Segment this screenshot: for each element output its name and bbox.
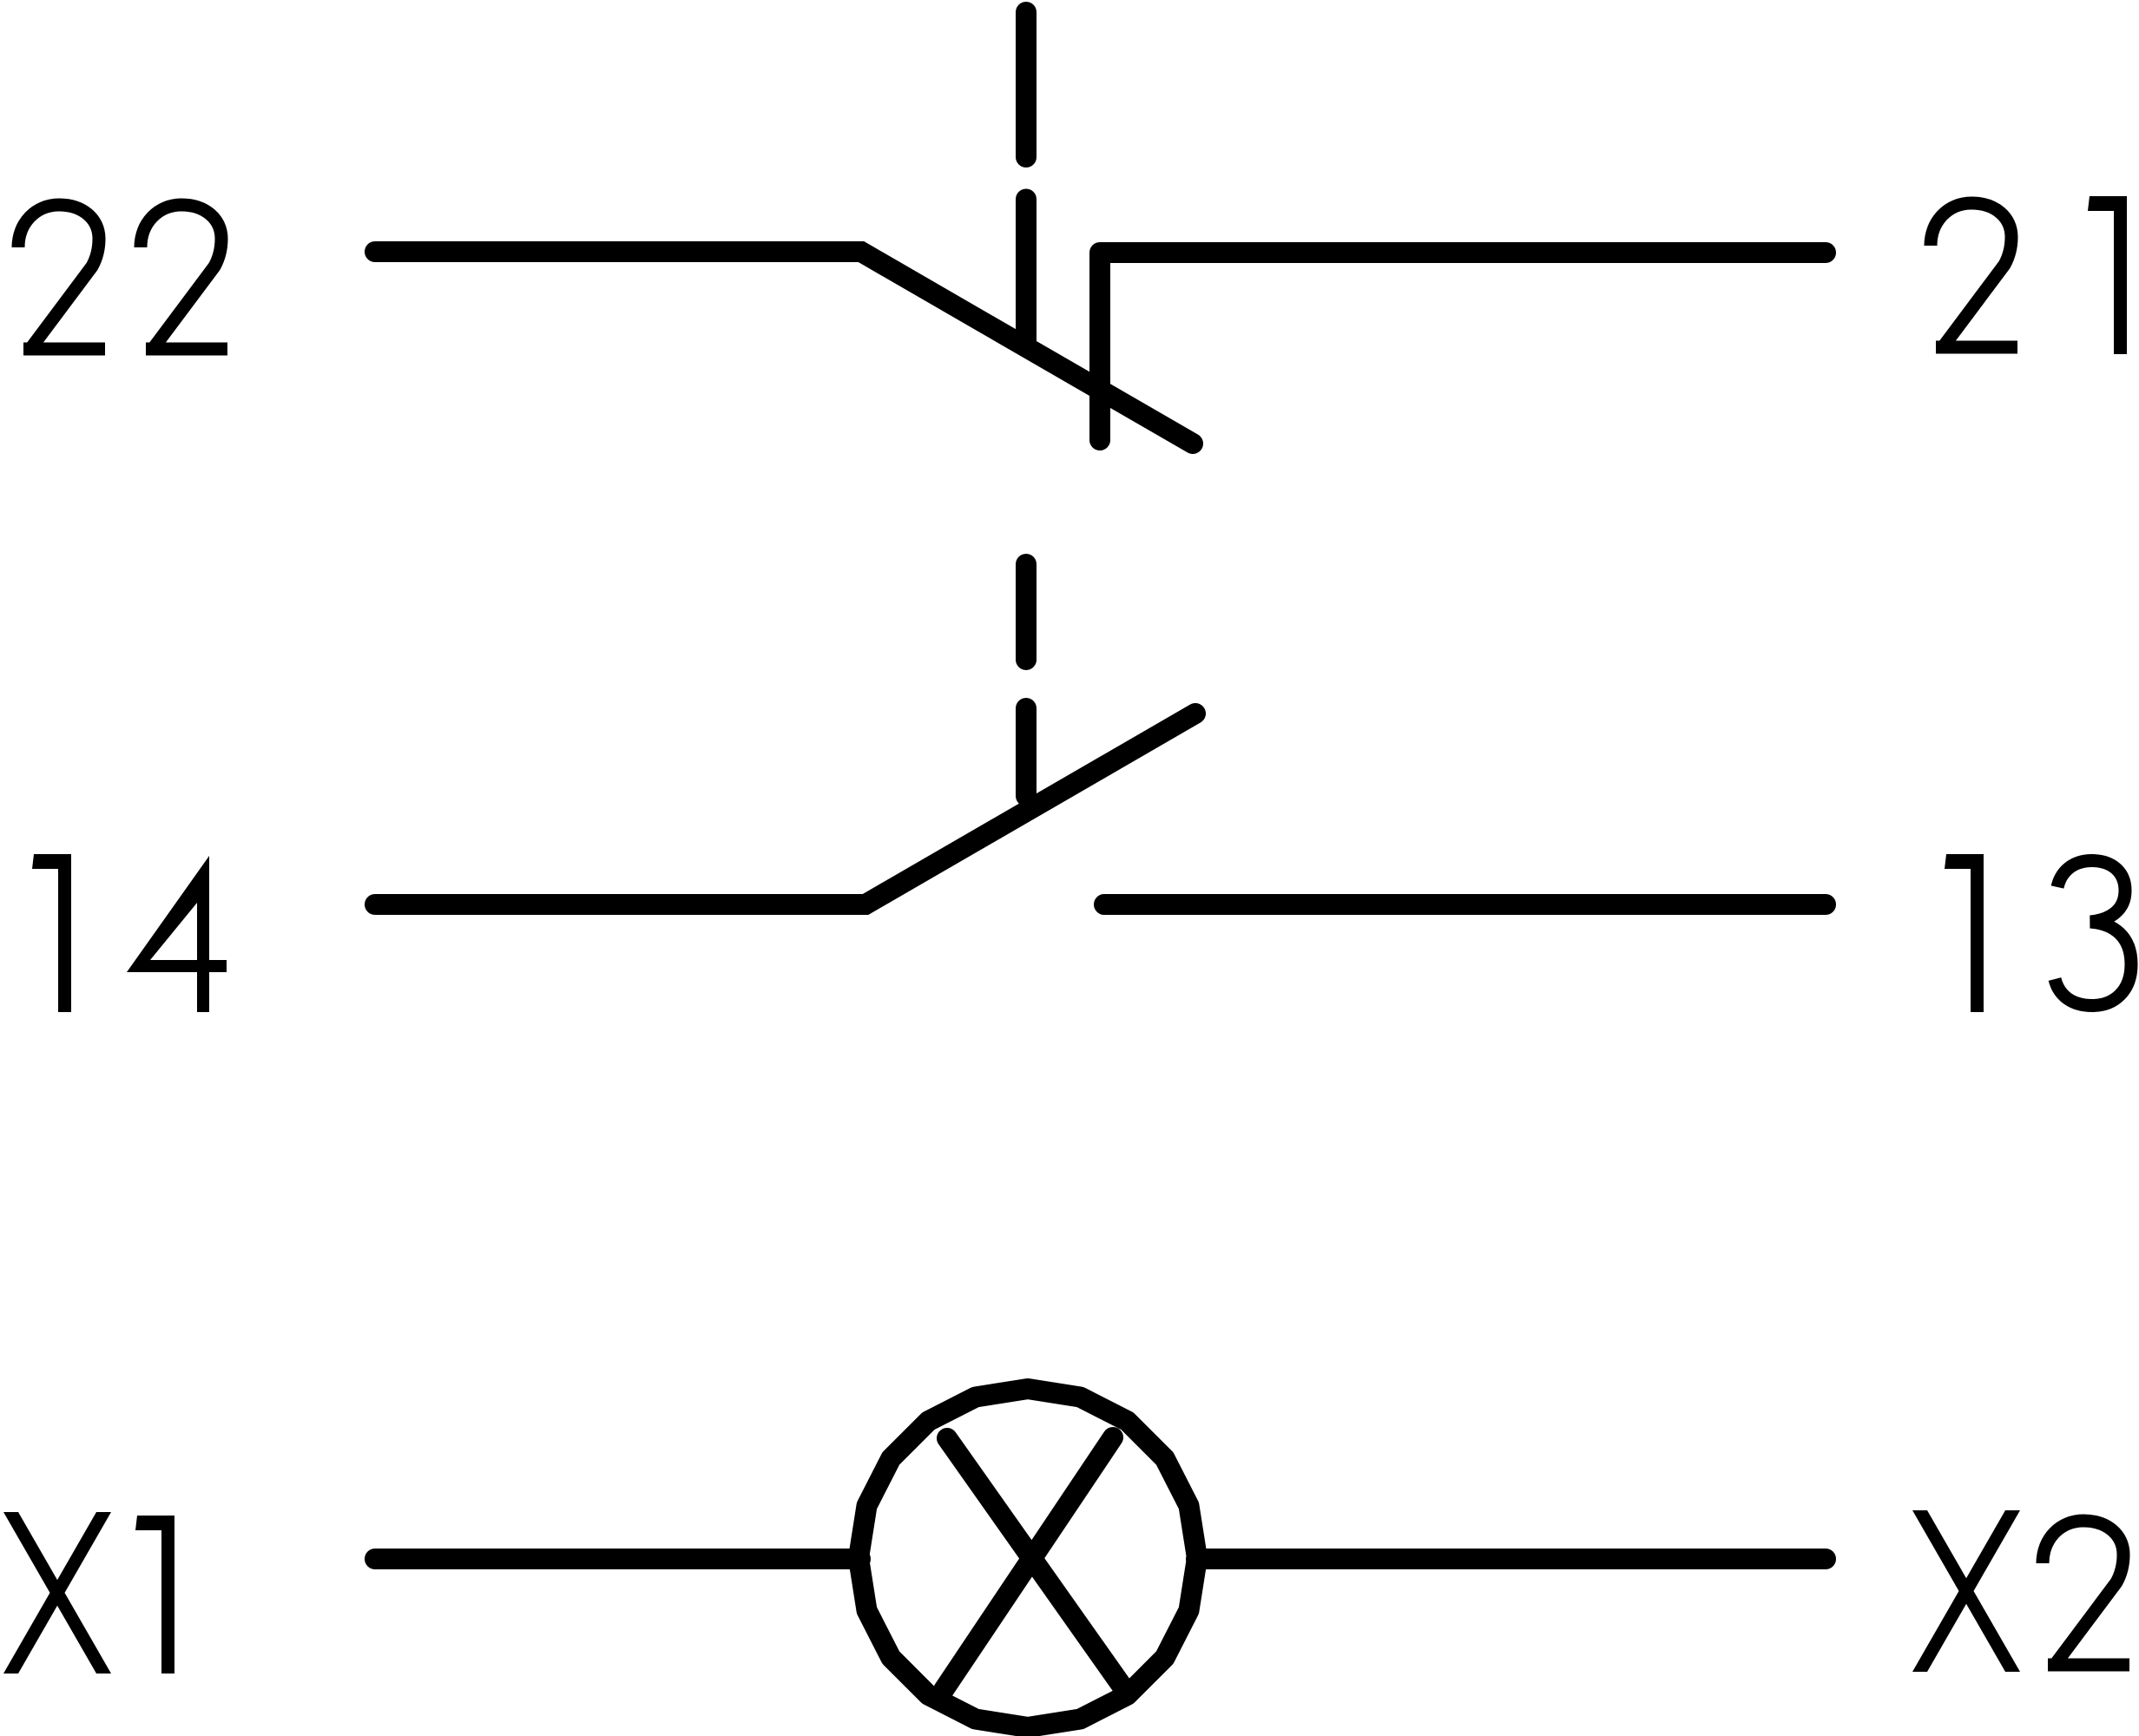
lamp circle [859, 1389, 1197, 1727]
label terminal X1 [3, 1512, 174, 1674]
NO contact actuator dash upper [1016, 564, 1037, 660]
wire terminal X1 [375, 1549, 860, 1569]
label terminal 21 [1931, 196, 2127, 354]
NC fixed contact bar and wire terminal 21 [1100, 253, 1826, 440]
lamp cross stroke 2 [944, 1437, 1113, 1690]
label terminal 14 [32, 854, 227, 1012]
wire terminal 14 and NO moving contact [375, 713, 1195, 904]
lamp cross stroke 1 [947, 1438, 1124, 1689]
wire terminal X2 [1196, 1549, 1826, 1569]
NO contact actuator dash lower [1016, 708, 1037, 796]
label terminal X2 [1912, 1510, 2129, 1672]
NC contact actuator dash lower [1016, 200, 1037, 347]
label terminal 22 [18, 205, 227, 349]
wire terminal 13 [1104, 894, 1826, 915]
label terminal 13 [1945, 854, 2131, 1012]
wire terminal 22 and NC moving contact [375, 252, 1193, 444]
NC contact actuator dash upper [1016, 12, 1037, 157]
